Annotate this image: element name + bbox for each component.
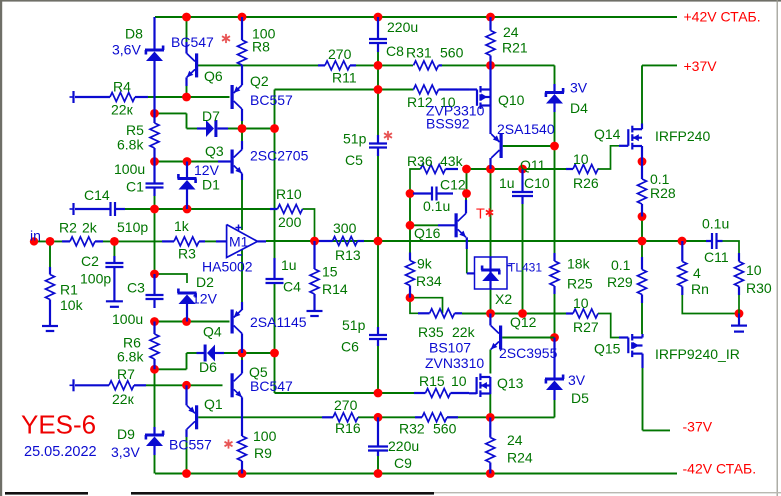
mosfet Q13 BS107/ZVN3310 bbox=[476, 377, 478, 394]
svg-text:Q11: Q11 bbox=[520, 157, 546, 173]
junction bbox=[150, 157, 159, 166]
svg-text:+37V: +37V bbox=[684, 58, 718, 74]
resistor R28 0.1 bbox=[641, 162, 643, 180]
resistor R1 10k bbox=[49, 267, 51, 275]
resistor R30 10 bbox=[738, 253, 740, 262]
junction bbox=[550, 333, 559, 342]
wire D7 anode lead-in bbox=[187, 128, 199, 130]
wire upper bias rail y=65 bbox=[198, 64, 318, 66]
wire TL431 cathode column bbox=[490, 169, 492, 257]
svg-text:TL431: TL431 bbox=[508, 261, 542, 275]
wire D1 node y=161 bbox=[155, 161, 188, 163]
svg-text:2SC3955: 2SC3955 bbox=[499, 345, 558, 361]
svg-text:510p: 510p bbox=[117, 219, 148, 235]
wire D6 anode to Q5/Q4 collector node bbox=[224, 352, 275, 354]
junction bbox=[374, 13, 383, 22]
diode D6 bbox=[197, 352, 205, 354]
mosfet Q15 IRFP9240 bbox=[627, 338, 629, 354]
junction bbox=[486, 413, 495, 422]
junction bbox=[150, 365, 159, 374]
svg-text:C1: C1 bbox=[126, 179, 144, 195]
svg-text:9k: 9k bbox=[417, 256, 433, 272]
transistor Q1 BC557 bbox=[195, 405, 198, 429]
svg-text:270: 270 bbox=[334, 397, 358, 413]
junction bbox=[374, 413, 383, 422]
svg-text:1k: 1k bbox=[174, 218, 190, 234]
svg-text:M1: M1 bbox=[229, 234, 249, 250]
junction bbox=[486, 61, 495, 70]
svg-text:R16: R16 bbox=[335, 420, 361, 436]
capacitor C2 100p bbox=[113, 256, 115, 263]
svg-text:in: in bbox=[30, 228, 41, 244]
input terminal R4 bbox=[72, 91, 74, 103]
resistor R5 6.8k bbox=[153, 113, 155, 123]
wire x=154 column C1-C3 bbox=[154, 196, 156, 274]
svg-text:Q14: Q14 bbox=[594, 126, 621, 142]
svg-text:BC547: BC547 bbox=[171, 34, 214, 50]
svg-text:R9: R9 bbox=[254, 445, 272, 461]
resistor R12 10 bbox=[412, 88, 415, 90]
svg-text:51p: 51p bbox=[343, 131, 367, 147]
wire Q12 emitter to Q13 drain bbox=[489, 350, 491, 374]
svg-text:D6: D6 bbox=[199, 359, 217, 375]
svg-text:C12: C12 bbox=[440, 177, 466, 193]
svg-text:BSS92: BSS92 bbox=[426, 116, 470, 132]
junction bbox=[374, 237, 383, 246]
wire node D4-Q11base to R25 bbox=[554, 112, 556, 253]
wire mid node rail y=313 bbox=[462, 313, 566, 315]
junction bbox=[550, 142, 559, 151]
svg-text:Q1: Q1 bbox=[204, 396, 223, 412]
svg-text:25.05.2022: 25.05.2022 bbox=[24, 444, 97, 460]
capacitor C1 100u bbox=[153, 162, 155, 184]
junction bbox=[150, 205, 159, 214]
wire main output rail y=241 bbox=[266, 240, 706, 242]
window border left bbox=[0, 0, 2, 496]
resistor R8 100 bbox=[241, 17, 243, 40]
svg-text:24: 24 bbox=[507, 432, 523, 448]
junction bbox=[270, 349, 279, 358]
svg-text:15: 15 bbox=[322, 264, 338, 280]
wire R25 to Q12 base node bbox=[554, 294, 556, 338]
svg-text:R32: R32 bbox=[399, 421, 425, 437]
junction bbox=[270, 124, 279, 133]
wire Q6 emitter to R4 node bbox=[186, 86, 188, 97]
wire Q13 source to node bbox=[489, 394, 491, 417]
resistor R15 10 bbox=[414, 392, 426, 394]
resistor R3 1k bbox=[162, 240, 174, 242]
wire +37V stub bbox=[642, 64, 677, 66]
zener D5 3V bbox=[553, 338, 555, 378]
svg-text:C9: C9 bbox=[394, 455, 412, 471]
junction bbox=[182, 13, 191, 22]
svg-text:Q15: Q15 bbox=[594, 341, 621, 357]
junction bbox=[183, 205, 192, 214]
junction bbox=[150, 317, 159, 326]
svg-text:R29: R29 bbox=[607, 274, 633, 290]
junction bbox=[638, 212, 647, 221]
svg-text:10: 10 bbox=[451, 373, 467, 389]
svg-text:D8: D8 bbox=[125, 26, 143, 42]
wire R36 left elbow bbox=[410, 169, 421, 194]
wire Q3 collector from node bbox=[241, 129, 243, 142]
svg-text:2SC2705: 2SC2705 bbox=[250, 148, 309, 164]
status bar gray segment right bbox=[434, 492, 781, 493]
svg-text:BS107: BS107 bbox=[429, 340, 471, 356]
svg-text:22к: 22к bbox=[111, 102, 134, 118]
wire C5 bottom to main rail bbox=[377, 156, 379, 241]
diode D7 bbox=[197, 127, 206, 129]
wire Q5 collector vertical bbox=[241, 353, 243, 360]
svg-text:300: 300 bbox=[333, 220, 357, 236]
resistor R9 100 with Q5 emitter lead bbox=[241, 397, 243, 436]
capacitor C6 51p bbox=[377, 327, 379, 335]
resistor Rn 4 bbox=[681, 241, 683, 262]
junction bbox=[182, 469, 191, 478]
svg-text:3,6V: 3,6V bbox=[112, 42, 141, 58]
capacitor C11 0.1u bbox=[706, 240, 712, 242]
svg-text:D4: D4 bbox=[570, 100, 588, 116]
svg-text:Q6: Q6 bbox=[204, 68, 223, 84]
junction bbox=[110, 237, 119, 246]
svg-text:C4: C4 bbox=[283, 279, 301, 295]
wire R5 top node y=113 bbox=[155, 112, 187, 114]
junction bbox=[150, 109, 159, 118]
wire C6 top from main rail bbox=[377, 241, 379, 327]
resistor R14 15 bbox=[313, 241, 315, 269]
junction bbox=[310, 237, 319, 246]
wire R7 to Q1/Q5 node bbox=[146, 384, 187, 386]
wire Q6 collector to top rail bbox=[186, 17, 188, 42]
zener D2 12V bbox=[178, 292, 197, 295]
capacitor C5 51p bbox=[377, 135, 379, 144]
svg-text:Q16: Q16 bbox=[414, 225, 441, 241]
junction bbox=[678, 237, 687, 246]
wire x=274 upper column bbox=[274, 90, 276, 129]
svg-text:T: T bbox=[476, 207, 485, 223]
capacitor C12 0.1u bbox=[413, 192, 432, 194]
junction bbox=[406, 189, 415, 198]
svg-text:0.1u: 0.1u bbox=[702, 216, 729, 232]
svg-text:10: 10 bbox=[573, 295, 589, 311]
wire main output rail y=241 left part bbox=[36, 240, 62, 242]
wire Q16 base bbox=[410, 224, 438, 226]
status bar black segment left bbox=[5, 492, 88, 495]
svg-text:C8: C8 bbox=[386, 43, 404, 59]
wire C9 bottom to rail bbox=[377, 456, 379, 474]
svg-text:R25: R25 bbox=[567, 276, 593, 292]
svg-text:D9: D9 bbox=[117, 426, 135, 442]
svg-text:Q10: Q10 bbox=[498, 92, 525, 108]
svg-text:IRFP9240_IR: IRFP9240_IR bbox=[655, 346, 740, 362]
wire x=274 lower column bbox=[274, 283, 276, 353]
resistor R31 560 bbox=[414, 61, 439, 70]
svg-text:100: 100 bbox=[253, 428, 277, 444]
svg-text:2SA1540: 2SA1540 bbox=[497, 121, 555, 137]
wire R34 bottom node loop lower bbox=[410, 298, 418, 314]
svg-text:220u: 220u bbox=[387, 19, 418, 35]
wire R29 top lead bbox=[641, 241, 643, 257]
capacitor C8 220u bbox=[377, 17, 379, 39]
wire D9 to bottom rail bbox=[154, 445, 156, 474]
wire C12 left node to Q16 base node bbox=[409, 194, 411, 226]
resistor R36 43k bbox=[421, 165, 446, 174]
wire Q11 base bbox=[503, 145, 555, 147]
svg-text:R36: R36 bbox=[407, 153, 433, 169]
capacitor C9 220u bbox=[377, 417, 379, 446]
junction bbox=[238, 13, 247, 22]
capacitor C3 100u bbox=[153, 274, 155, 295]
svg-text:R2: R2 bbox=[59, 220, 77, 236]
resistor R35 22k bbox=[418, 312, 430, 314]
svg-text:220u: 220u bbox=[388, 438, 419, 454]
svg-text:Q13: Q13 bbox=[497, 375, 524, 391]
window border right bbox=[777, 0, 778, 496]
junction bbox=[462, 189, 471, 198]
wire R29 to Q15 drain bbox=[641, 303, 643, 334]
svg-text:24: 24 bbox=[503, 24, 519, 40]
svg-text:3,3V: 3,3V bbox=[111, 444, 140, 460]
svg-text:R13: R13 bbox=[335, 247, 361, 263]
svg-text:R30: R30 bbox=[746, 280, 772, 296]
zener D9 3.3V bbox=[153, 427, 155, 434]
wire D6 lead-in bbox=[187, 352, 197, 354]
wire Q16 emitter down to TL431 ref bbox=[466, 249, 468, 273]
svg-text:C14: C14 bbox=[84, 187, 110, 203]
svg-text:2k: 2k bbox=[82, 220, 98, 236]
resistor R16 270 bbox=[322, 416, 333, 418]
wire Q2 base bbox=[187, 96, 230, 98]
svg-text:2SA1145: 2SA1145 bbox=[250, 314, 307, 330]
transistor Q12 2SC3955 bbox=[499, 326, 502, 350]
wire Q2 collector to node bbox=[241, 121, 243, 129]
wire C11 right to R30 bbox=[723, 241, 740, 253]
junction bbox=[238, 349, 247, 358]
resistor R26 10 bbox=[566, 168, 573, 170]
svg-text:3V: 3V bbox=[568, 372, 586, 388]
zener D8 3.6V bbox=[153, 17, 155, 49]
svg-text:R31: R31 bbox=[406, 45, 432, 61]
svg-text:-42V СТАБ.: -42V СТАБ. bbox=[683, 461, 757, 477]
svg-text:R4: R4 bbox=[113, 79, 131, 95]
svg-text:43k: 43k bbox=[440, 153, 464, 169]
resistor R7 22k bbox=[75, 384, 109, 386]
svg-text:1u: 1u bbox=[281, 257, 297, 273]
junction bbox=[182, 317, 191, 326]
svg-text:10: 10 bbox=[746, 262, 762, 278]
mosfet Q10 ZVP3310/BSS92 bbox=[476, 90, 478, 106]
junction bbox=[735, 309, 744, 318]
asterisk near C5 bbox=[387, 131, 389, 140]
resistor R2 2k bbox=[62, 240, 70, 242]
wire R6 bottom node y=369 bbox=[155, 368, 187, 370]
svg-text:51p: 51p bbox=[342, 317, 366, 333]
wire x=154 column R6 to D9 bbox=[154, 369, 156, 427]
input pad bbox=[30, 237, 38, 245]
svg-text:Q12: Q12 bbox=[510, 314, 537, 330]
junction bbox=[406, 221, 415, 230]
wire +37V to Q14 drain bbox=[641, 65, 643, 123]
resistor R11 270 bbox=[318, 64, 325, 66]
junction bbox=[374, 469, 383, 478]
junction bbox=[182, 381, 191, 390]
input terminal C14 bbox=[72, 203, 74, 215]
wire D5 bottom to Q13 source node bbox=[490, 416, 554, 418]
svg-text:Rn: Rn bbox=[691, 281, 709, 297]
wire R26 to Q14 gate elbow bbox=[598, 146, 620, 169]
wire Q16 collector riser bbox=[465, 194, 467, 201]
svg-text:R11: R11 bbox=[332, 70, 357, 86]
svg-text:10: 10 bbox=[573, 151, 589, 167]
wire Q3 base bbox=[187, 161, 218, 163]
status bar black segment middle bbox=[131, 492, 434, 495]
svg-text:R7: R7 bbox=[117, 366, 135, 382]
ground R1 bbox=[42, 325, 58, 327]
svg-text:18k: 18k bbox=[567, 256, 591, 272]
svg-text:R35: R35 bbox=[418, 324, 444, 340]
transistor Q4 2SA1145 bbox=[241, 302, 243, 310]
svg-text:Q3: Q3 bbox=[205, 143, 224, 159]
junction bbox=[374, 61, 383, 70]
svg-text:R21: R21 bbox=[502, 40, 528, 56]
zener D4 3V bbox=[553, 84, 555, 91]
junction bbox=[374, 85, 383, 94]
svg-text:200: 200 bbox=[278, 214, 302, 230]
transistor Q5 BC547 bbox=[241, 360, 243, 373]
wire C10 bottom column bbox=[522, 204, 524, 314]
wire Q1 emitter junction bbox=[186, 385, 188, 391]
svg-text:100u: 100u bbox=[112, 311, 143, 327]
resistor R27 10 bbox=[566, 312, 573, 314]
svg-text:D5: D5 bbox=[571, 390, 589, 406]
svg-text:R27: R27 bbox=[573, 319, 599, 335]
svg-text:270: 270 bbox=[328, 46, 352, 62]
svg-text:0.1u: 0.1u bbox=[423, 198, 450, 214]
wire C8 bottom to bias rail bbox=[377, 52, 379, 65]
wire C6 bottom to y=393 bbox=[377, 346, 379, 393]
svg-text:C6: C6 bbox=[341, 339, 359, 355]
transistor Q3 2SC2705 bbox=[241, 141, 243, 150]
junction bbox=[238, 124, 247, 133]
svg-text:Q2: Q2 bbox=[250, 73, 269, 89]
junction bbox=[374, 389, 383, 398]
wire C12 right node riser bbox=[466, 169, 468, 194]
capacitor C10 1u bbox=[521, 169, 523, 192]
wire R1 top lead bbox=[49, 241, 51, 267]
junction bbox=[518, 309, 527, 318]
wire R34 bottom node loop upper bbox=[410, 298, 443, 314]
junction bbox=[183, 157, 192, 166]
capacitor C4 1u bbox=[273, 258, 275, 279]
junction bbox=[238, 469, 247, 478]
junction bbox=[406, 293, 415, 302]
svg-text:BC557: BC557 bbox=[250, 92, 293, 108]
resistor R10 200 bbox=[270, 208, 278, 210]
wire D2 top branch bbox=[155, 274, 188, 283]
junction bbox=[486, 13, 495, 22]
svg-text:1u: 1u bbox=[499, 175, 515, 191]
svg-text:12V: 12V bbox=[194, 162, 220, 178]
junction bbox=[462, 165, 471, 174]
svg-text:560: 560 bbox=[433, 421, 457, 437]
junction bbox=[486, 469, 495, 478]
svg-text:R10: R10 bbox=[276, 186, 302, 202]
wire D2/C3 bottom node y=321 bbox=[155, 321, 187, 323]
svg-text:10k: 10k bbox=[60, 297, 84, 313]
svg-text:22k: 22k bbox=[452, 324, 476, 340]
svg-text:6.8k: 6.8k bbox=[117, 137, 144, 153]
junction bbox=[486, 309, 495, 318]
svg-text:C3: C3 bbox=[127, 280, 145, 296]
svg-text:R1: R1 bbox=[60, 282, 78, 298]
wire Q12 base bbox=[502, 337, 554, 339]
junction bbox=[638, 157, 647, 166]
transistor Q11 2SA1540 bbox=[500, 134, 503, 158]
svg-text:BC557: BC557 bbox=[169, 437, 212, 453]
wire Q5 base bbox=[187, 384, 223, 386]
wire lower bias rail y=417 bbox=[198, 416, 322, 418]
svg-text:D1: D1 bbox=[202, 177, 220, 193]
junction bbox=[46, 237, 55, 246]
svg-text:R15: R15 bbox=[419, 373, 445, 389]
resistor R25 18k bbox=[553, 253, 555, 261]
svg-text:R14: R14 bbox=[322, 281, 348, 297]
svg-text:R3: R3 bbox=[178, 246, 196, 262]
window border top bbox=[0, 0, 781, 2]
resistor R34 9k bbox=[409, 253, 411, 261]
resistor R6 6.8k bbox=[153, 322, 155, 335]
svg-text:X2: X2 bbox=[495, 291, 512, 307]
svg-text:BC547: BC547 bbox=[250, 378, 293, 394]
wire R4 to Q6/Q2 node bbox=[148, 96, 187, 98]
svg-text:R28: R28 bbox=[650, 185, 676, 201]
resistor R29 0.1 bbox=[641, 257, 643, 270]
svg-text:C11: C11 bbox=[704, 249, 729, 265]
input terminal R7 bbox=[72, 379, 74, 391]
resistor R13 300 bbox=[319, 240, 333, 242]
wire R27 to Q15 gate elbow bbox=[598, 314, 619, 338]
wire Q15 source to -37V bbox=[642, 368, 644, 430]
wire C5 top lead bbox=[377, 90, 379, 136]
svg-text:100p: 100p bbox=[80, 271, 111, 287]
svg-text:12V: 12V bbox=[192, 291, 218, 307]
svg-text:R8: R8 bbox=[252, 39, 270, 55]
ground R14 bbox=[307, 310, 323, 312]
wire C2 top lead bbox=[113, 241, 115, 256]
junction bbox=[638, 237, 647, 246]
svg-text:IRFP240: IRFP240 bbox=[655, 128, 710, 144]
resistor R21 24 bbox=[489, 17, 491, 31]
wire C1/D1 bottom node y=209 to R10 bbox=[125, 208, 270, 210]
svg-text:-37V: -37V bbox=[683, 419, 713, 435]
capacitor C14 510p bbox=[75, 208, 111, 210]
wire bias node rail y=169 bbox=[467, 168, 567, 170]
svg-text:C2: C2 bbox=[81, 253, 99, 269]
asterisk near R8 bbox=[225, 34, 227, 43]
svg-text:C5: C5 bbox=[345, 152, 363, 168]
wire +42V top rail bbox=[155, 16, 677, 18]
wire R10 right elbow bbox=[303, 209, 315, 241]
svg-text:0.1: 0.1 bbox=[611, 257, 631, 273]
svg-text:D2: D2 bbox=[196, 274, 214, 290]
svg-text:6.8k: 6.8k bbox=[117, 349, 144, 365]
asterisk near R9 bbox=[228, 439, 230, 448]
svg-text:100u: 100u bbox=[114, 161, 145, 177]
transistor Q2 BC557 bbox=[241, 65, 243, 85]
wire opamp plus input from Q3 emitter bbox=[241, 180, 243, 230]
wire -37V stub bbox=[643, 429, 671, 431]
opamp M1 HA5002 bbox=[227, 225, 258, 258]
